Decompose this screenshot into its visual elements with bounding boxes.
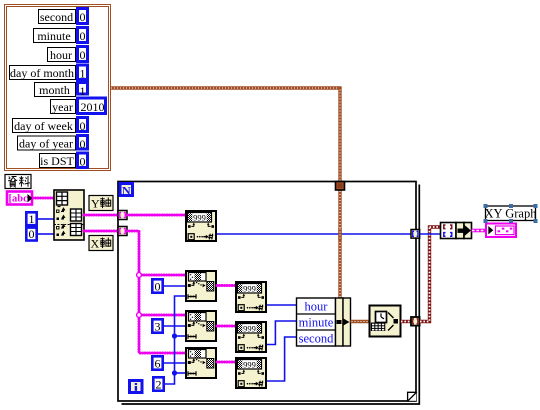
function: string to number A (236, 282, 266, 312)
label X軸 (89, 236, 113, 251)
svg-text:year: year (52, 100, 73, 114)
numeric control month value 1 (78, 83, 88, 99)
svg-text:XY Graph: XY Graph (485, 206, 538, 220)
wire: cluster wire (brown dotted) from cluster to tunnel and bundle (110, 88, 340, 298)
tunnel: X axis auto-index on left border (118, 227, 127, 236)
svg-text:second: second (299, 332, 334, 346)
svg-text:6: 6 (155, 357, 161, 371)
numeric constant 1 (26, 212, 36, 226)
svg-text:day of week: day of week (14, 119, 73, 133)
wire: N1 numeric array to right tunnel (217, 233, 412, 235)
wire: constant 1 to index node (38, 218, 54, 220)
wire: constant 2 trunk to length inputs (165, 296, 186, 384)
cluster: date-time record constant frame (5, 5, 111, 171)
label is DST (40, 154, 76, 169)
label month (35, 83, 76, 98)
wire: timestamp from date-time function to right tunnel (401, 320, 413, 323)
numeric constant 3 (152, 319, 162, 333)
svg-text:N: N (122, 184, 131, 198)
function: Bundle By Name hour/minute/second (297, 298, 351, 346)
wire: A to bundle hour (267, 304, 297, 306)
wire: S2 to B (217, 325, 236, 328)
svg-text:2: 2 (156, 378, 162, 392)
wire: string array to index node (33, 197, 54, 200)
svg-text:3: 3 (155, 320, 161, 334)
indicator terminal: XY Graph (486, 224, 516, 238)
junction: pink ring at branch 2 (137, 313, 142, 318)
label year (51, 100, 76, 115)
svg-text:0: 0 (80, 137, 86, 151)
wire: S1 to A (217, 284, 236, 287)
numeric constant 0 (152, 279, 162, 293)
function: Bundle X and Y arrays (441, 223, 472, 239)
wire: B to bundle minute (267, 321, 297, 345)
tunnel: timestamp auto-index on right border (411, 317, 420, 326)
junction: pink ring at branch 1 (137, 273, 142, 278)
string array constant [abc] (7, 192, 33, 205)
label 資料 (data) (5, 175, 31, 189)
function: String Subset S3 (186, 348, 216, 378)
numeric control hour value 0 (78, 47, 88, 63)
function: Date/Time To Seconds (370, 306, 401, 337)
numeric control day of month value 1 (78, 65, 88, 81)
svg-text:0: 0 (155, 280, 161, 294)
svg-text:is DST: is DST (40, 154, 74, 168)
numeric control year value 2010 (78, 98, 106, 114)
numeric control day of year value 0 (78, 136, 88, 152)
label hour (48, 48, 76, 63)
svg-text:hour: hour (305, 300, 329, 314)
numeric control is DST value 0 (78, 153, 88, 169)
selection handles (484, 204, 538, 223)
label day of year (18, 136, 76, 151)
numeric constant 2 (153, 377, 163, 391)
svg-text:month: month (39, 83, 70, 97)
svg-text:0: 0 (80, 10, 86, 24)
svg-text:0: 0 (29, 227, 35, 241)
wire: C to bundle second (267, 337, 297, 381)
for loop count terminal N (120, 184, 133, 198)
svg-text:second: second (40, 10, 73, 24)
svg-text:[abc: [abc (9, 194, 29, 205)
numeric control day of week value 0 (78, 118, 88, 134)
function: string to number C (236, 358, 266, 388)
numeric constant 0 (26, 227, 36, 241)
wire: constant 0 to S1 offset (164, 285, 186, 287)
label Y軸 (89, 196, 113, 211)
svg-text:0: 0 (80, 119, 86, 133)
junction: blue dot S3 length (172, 370, 177, 375)
for loop iteration terminal i (130, 381, 143, 393)
wire: Y string to string-to-number N1 (127, 214, 186, 217)
wire: constant 6 to S3 offset (164, 362, 186, 364)
numeric control second value 0 (78, 9, 88, 25)
svg-text:0: 0 (80, 48, 86, 62)
svg-text:0: 0 (80, 155, 86, 169)
function: String Subset S1 (186, 271, 216, 301)
for loop border (118, 182, 419, 405)
wire: XY cluster array to graph terminal (472, 229, 487, 233)
svg-text:1: 1 (29, 212, 35, 226)
numeric control minute value 0 (78, 28, 88, 44)
numeric constant 6 (152, 356, 162, 370)
label second (39, 10, 76, 25)
wire: numeric array to bundle Y input (420, 233, 441, 235)
function: string to number B (236, 322, 266, 352)
svg-text:minute: minute (299, 316, 334, 330)
wire: constant 0 to index node (38, 233, 54, 235)
function: string to number N1 (186, 211, 216, 241)
tunnel: numeric array on right border (411, 230, 420, 239)
svg-text:1: 1 (80, 67, 86, 81)
label minute (34, 29, 76, 44)
svg-text:0: 0 (80, 29, 86, 43)
wire: bundled cluster to date-time function (351, 320, 370, 323)
tunnel: Y axis auto-index on left border (118, 211, 127, 220)
label day of month (10, 66, 76, 81)
wire: S3 to C (217, 361, 236, 364)
svg-text:X: X (91, 237, 100, 251)
svg-text:day of year: day of year (19, 137, 73, 151)
svg-text:2010: 2010 (81, 100, 105, 114)
svg-text:hour: hour (50, 48, 72, 62)
function: Index Array (2 indices) (54, 190, 84, 240)
svg-text:day of month: day of month (10, 66, 74, 80)
label XY Graph (selected) (485, 206, 538, 221)
tunnel: cluster wire through loop top border (336, 182, 345, 191)
function: String Subset S2 (186, 311, 216, 341)
svg-text:1: 1 (80, 84, 86, 98)
for loop corner notch (408, 392, 417, 402)
wire: timestamp array up to bundle X input (420, 227, 441, 322)
label day of week (13, 119, 76, 134)
wire: constant 3 to S2 offset (164, 325, 186, 327)
wire: Y axis string array to left tunnel 1 (84, 214, 119, 217)
junction: blue dot S2 length (172, 333, 177, 338)
svg-text:minute: minute (37, 29, 70, 43)
wire: X axis string array to left tunnel 2 (84, 230, 119, 233)
wire: X string trunk down with branches (127, 231, 186, 353)
wire: cluster wire over crossing (338, 228, 341, 240)
svg-text:Y: Y (91, 197, 100, 211)
